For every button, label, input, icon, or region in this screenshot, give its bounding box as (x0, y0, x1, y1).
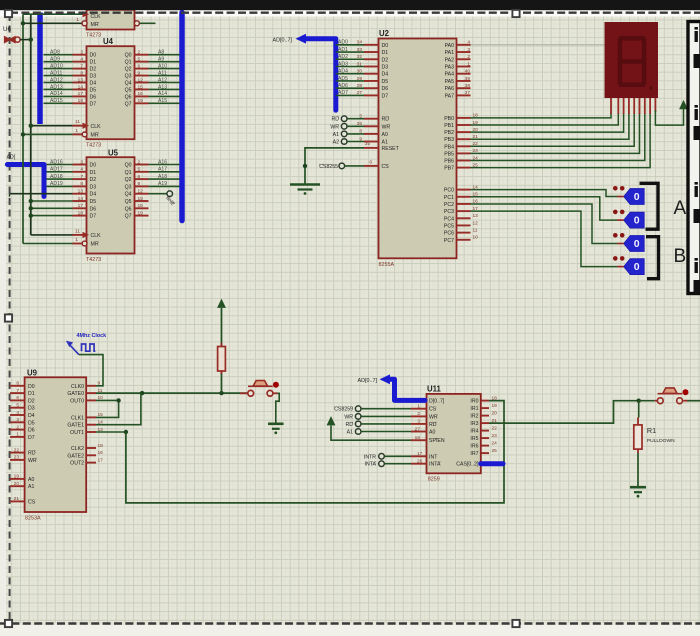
svg-text:RD: RD (382, 117, 390, 123)
svg-text:D7: D7 (90, 214, 97, 220)
svg-text:15: 15 (138, 84, 144, 90)
svg-text:RESET: RESET (382, 146, 400, 152)
svg-text:AD12: AD12 (50, 77, 63, 83)
svg-text:MR: MR (91, 133, 99, 139)
svg-text:8259: 8259 (428, 477, 440, 483)
svg-text:A16: A16 (158, 159, 167, 165)
svg-text:18: 18 (492, 395, 498, 401)
svg-text:PA6: PA6 (445, 86, 455, 92)
svg-text:4: 4 (467, 40, 470, 46)
svg-text:IR1: IR1 (470, 406, 478, 412)
svg-text:OUT2: OUT2 (70, 461, 84, 467)
svg-text:RD: RD (332, 117, 340, 123)
svg-text:WR: WR (382, 124, 391, 130)
svg-text:D1: D1 (382, 50, 389, 56)
svg-text:26: 26 (417, 459, 423, 465)
svg-text:D3: D3 (90, 74, 97, 80)
svg-text:A2: A2 (333, 140, 339, 146)
svg-text:1: 1 (75, 128, 78, 134)
svg-text:B: B (674, 246, 687, 267)
svg-text:PC5: PC5 (444, 223, 454, 229)
svg-text:18: 18 (98, 443, 104, 449)
svg-text:D2: D2 (90, 177, 97, 183)
svg-text:AD15: AD15 (50, 98, 63, 104)
svg-text:PA7: PA7 (445, 93, 455, 99)
svg-text:A0: A0 (382, 132, 388, 138)
svg-text:Q0: Q0 (125, 163, 132, 169)
svg-text:8255A: 8255A (379, 262, 395, 268)
svg-text:D4: D4 (90, 81, 97, 87)
svg-text:A15: A15 (158, 98, 167, 104)
svg-text:30: 30 (357, 69, 363, 75)
svg-text:MR: MR (91, 22, 99, 28)
svg-text:19: 19 (14, 474, 20, 480)
svg-text:D2: D2 (28, 398, 35, 404)
svg-text:A11: A11 (158, 70, 167, 76)
svg-text:PA1: PA1 (445, 50, 455, 56)
svg-text:U6: U6 (3, 26, 11, 33)
svg-text:9: 9 (138, 70, 141, 76)
svg-text:T4273: T4273 (86, 143, 101, 149)
svg-text:16: 16 (98, 450, 104, 456)
svg-text:A1: A1 (347, 430, 353, 436)
svg-text:PB3: PB3 (444, 137, 454, 143)
svg-text:WR: WR (344, 414, 353, 420)
svg-text:D1: D1 (90, 60, 97, 66)
svg-text:IR5: IR5 (470, 436, 478, 442)
svg-text:2: 2 (138, 50, 141, 56)
svg-text:16: 16 (138, 91, 144, 97)
svg-text:29: 29 (357, 76, 363, 82)
svg-text:36: 36 (357, 121, 363, 127)
svg-text:37: 37 (465, 90, 471, 96)
svg-text:Q7: Q7 (125, 214, 132, 220)
svg-text:CS: CS (382, 164, 390, 170)
svg-text:D3: D3 (28, 406, 35, 412)
svg-text:IR3: IR3 (470, 421, 478, 427)
svg-text:PA3: PA3 (445, 64, 455, 70)
svg-text:D0: D0 (90, 163, 97, 169)
svg-text:U9: U9 (27, 369, 38, 378)
svg-text:23: 23 (14, 455, 20, 461)
svg-text:PB6: PB6 (444, 159, 454, 165)
svg-text:CLK: CLK (91, 124, 102, 130)
svg-text:D6: D6 (90, 206, 97, 212)
svg-text:14: 14 (78, 84, 84, 90)
svg-text:A10: A10 (158, 63, 167, 69)
svg-text:5: 5 (16, 403, 19, 409)
svg-text:9: 9 (138, 181, 141, 187)
svg-text:15: 15 (138, 196, 144, 202)
svg-text:5: 5 (138, 56, 141, 62)
svg-text:3: 3 (16, 417, 19, 423)
svg-text:28: 28 (357, 83, 363, 89)
svg-text:A12: A12 (158, 77, 167, 83)
svg-text:0: 0 (634, 238, 640, 250)
svg-text:40: 40 (465, 69, 471, 75)
svg-text:Q5: Q5 (125, 199, 132, 205)
svg-text:Q2: Q2 (125, 177, 132, 183)
svg-text:WR: WR (28, 458, 37, 464)
svg-text:11: 11 (75, 228, 80, 234)
svg-text:D3: D3 (382, 64, 389, 70)
svg-text:WR: WR (429, 414, 438, 420)
svg-text:Q1: Q1 (125, 170, 132, 176)
svg-text:CLK0: CLK0 (71, 384, 84, 390)
svg-text:PB7: PB7 (444, 166, 454, 172)
svg-text:25: 25 (492, 448, 498, 454)
svg-text:22: 22 (14, 447, 20, 453)
svg-text:27: 27 (415, 426, 421, 432)
svg-text:D4: D4 (28, 413, 35, 419)
svg-text:2: 2 (16, 424, 19, 430)
svg-text:A: A (674, 198, 687, 219)
svg-text:AD10: AD10 (50, 63, 63, 69)
svg-text:34: 34 (357, 40, 363, 46)
svg-text:OUT1: OUT1 (70, 430, 84, 436)
svg-text:CS: CS (429, 407, 437, 413)
svg-text:6: 6 (369, 160, 372, 166)
svg-text:T4273: T4273 (86, 33, 101, 39)
svg-text:39: 39 (465, 76, 471, 82)
svg-text:CLK2: CLK2 (71, 446, 84, 452)
svg-text:6: 6 (16, 395, 19, 401)
svg-text:A14: A14 (158, 91, 167, 97)
svg-text:R1: R1 (647, 426, 656, 435)
svg-text:12: 12 (473, 220, 479, 226)
svg-text:A0: A0 (28, 477, 34, 483)
svg-text:CAS[0..2]: CAS[0..2] (456, 462, 479, 468)
svg-text:3: 3 (417, 419, 420, 425)
svg-text:D6: D6 (90, 94, 97, 100)
svg-text:MR: MR (91, 242, 99, 248)
svg-text:8: 8 (16, 381, 19, 387)
svg-text:U11: U11 (427, 385, 442, 394)
svg-text:13: 13 (78, 189, 84, 195)
svg-text:D5: D5 (382, 79, 389, 85)
svg-text:A0: A0 (429, 430, 435, 436)
svg-text:AD14: AD14 (50, 91, 63, 97)
svg-text:CS8255: CS8255 (319, 164, 338, 170)
svg-text:D3: D3 (90, 184, 97, 190)
svg-text:19: 19 (492, 403, 498, 409)
svg-text:PB5: PB5 (444, 151, 454, 157)
svg-text:PC7: PC7 (444, 238, 454, 244)
svg-text:D1: D1 (90, 170, 97, 176)
svg-text:PA2: PA2 (445, 57, 455, 63)
svg-text:D7: D7 (90, 101, 97, 107)
svg-text:6: 6 (138, 63, 141, 69)
svg-text:19: 19 (138, 210, 144, 216)
svg-text:5: 5 (138, 167, 141, 173)
svg-text:OUT0: OUT0 (70, 398, 84, 404)
svg-text:D5: D5 (90, 87, 97, 93)
svg-text:Q5: Q5 (125, 87, 132, 93)
svg-text:8: 8 (80, 181, 83, 187)
svg-text:31: 31 (357, 61, 363, 67)
svg-text:Q6: Q6 (125, 206, 132, 212)
svg-text:D6: D6 (382, 86, 389, 92)
svg-text:Q2: Q2 (125, 67, 132, 73)
svg-text:17: 17 (78, 203, 84, 209)
svg-text:RD: RD (429, 422, 437, 428)
svg-text:10: 10 (473, 235, 479, 241)
svg-text:Q7: Q7 (125, 101, 132, 107)
svg-text:IR6: IR6 (470, 444, 478, 450)
svg-text:AD2: AD2 (338, 54, 348, 60)
svg-text:IR4: IR4 (470, 429, 478, 435)
svg-text:19: 19 (138, 98, 144, 104)
svg-text:11: 11 (473, 227, 478, 233)
svg-text:U4: U4 (103, 37, 114, 46)
svg-text:16: 16 (415, 435, 421, 441)
svg-text:D0: D0 (90, 53, 97, 59)
svg-text:PB2: PB2 (444, 130, 454, 136)
svg-text:PC0: PC0 (444, 188, 454, 194)
svg-text:4: 4 (16, 410, 19, 416)
svg-text:D4: D4 (90, 192, 97, 198)
svg-text:IR0: IR0 (470, 399, 478, 405)
svg-text:1: 1 (76, 17, 79, 23)
svg-text:8: 8 (359, 129, 362, 135)
svg-text:Q1: Q1 (125, 60, 132, 66)
svg-text:AD13: AD13 (50, 84, 63, 90)
svg-text:PULLDOWN: PULLDOWN (647, 438, 675, 444)
svg-text:IR2: IR2 (470, 414, 478, 420)
svg-text:CS: CS (28, 499, 36, 505)
svg-text:U5: U5 (108, 149, 119, 158)
svg-text:D1: D1 (28, 391, 35, 397)
svg-text:21: 21 (14, 496, 20, 502)
svg-text:PB1: PB1 (444, 123, 454, 129)
svg-text:0: 0 (634, 215, 640, 227)
svg-text:7: 7 (80, 174, 83, 180)
svg-text:32: 32 (357, 54, 363, 60)
svg-text:A9: A9 (158, 56, 164, 62)
svg-text:D5: D5 (28, 420, 35, 426)
svg-text:D6: D6 (28, 428, 35, 434)
svg-text:D2: D2 (90, 67, 97, 73)
svg-text:AD1: AD1 (338, 47, 348, 53)
svg-text:Q3: Q3 (125, 184, 132, 190)
svg-text:8253A: 8253A (25, 516, 41, 522)
svg-text:SP/EN: SP/EN (429, 438, 445, 444)
svg-text:T4273: T4273 (86, 257, 101, 263)
svg-text:13: 13 (473, 213, 479, 219)
svg-text:PA0: PA0 (445, 43, 455, 49)
svg-text:3: 3 (80, 50, 83, 56)
svg-text:18: 18 (78, 98, 84, 104)
svg-text:Q4: Q4 (125, 192, 132, 198)
svg-text:17: 17 (417, 451, 423, 457)
svg-text:PB4: PB4 (444, 144, 454, 150)
svg-text:PC3: PC3 (444, 209, 454, 215)
svg-text:17: 17 (78, 91, 84, 97)
svg-text:1: 1 (16, 432, 19, 438)
svg-text:AD[0..7]: AD[0..7] (273, 38, 293, 44)
svg-text:12: 12 (138, 77, 144, 83)
svg-text:CLK: CLK (91, 14, 102, 20)
svg-text:22: 22 (492, 425, 498, 431)
svg-text:0: 0 (634, 191, 640, 203)
svg-text:AD16: AD16 (50, 159, 63, 165)
svg-text:23: 23 (492, 433, 498, 439)
svg-text:AD18: AD18 (50, 174, 63, 180)
svg-text:D[0..7]: D[0..7] (429, 398, 445, 404)
svg-text:AD19: AD19 (50, 181, 63, 187)
svg-text:2: 2 (417, 411, 420, 417)
svg-text:AD11: AD11 (50, 70, 63, 76)
svg-text:D0: D0 (28, 384, 35, 390)
svg-text:20: 20 (492, 410, 498, 416)
svg-text:PC6: PC6 (444, 231, 454, 237)
svg-text:16: 16 (138, 203, 144, 209)
svg-text:4: 4 (80, 56, 83, 62)
svg-text:Q6: Q6 (125, 94, 132, 100)
svg-text:GATE1: GATE1 (67, 423, 84, 429)
svg-text:AD4: AD4 (338, 69, 348, 75)
svg-text:AD5: AD5 (338, 76, 348, 82)
svg-text:CLK: CLK (91, 233, 102, 239)
svg-text:6: 6 (138, 174, 141, 180)
svg-text:D7: D7 (382, 93, 389, 99)
svg-text:8: 8 (80, 70, 83, 76)
svg-text:GATE0: GATE0 (67, 391, 84, 397)
svg-text:PC4: PC4 (444, 216, 454, 222)
svg-text:CLK1: CLK1 (71, 415, 84, 421)
svg-text:AD7: AD7 (338, 90, 348, 96)
svg-text:D2: D2 (382, 57, 389, 63)
svg-text:AD[: AD[ (7, 155, 16, 161)
svg-text:A1: A1 (333, 132, 339, 138)
svg-text:U2: U2 (379, 29, 390, 38)
svg-text:A8: A8 (158, 50, 164, 56)
svg-text:2: 2 (467, 54, 470, 60)
svg-text:D0: D0 (382, 43, 389, 49)
svg-text:A19: A19 (158, 181, 167, 187)
svg-text:0: 0 (634, 261, 640, 273)
svg-text:PA5: PA5 (445, 79, 455, 85)
svg-text:A1: A1 (382, 140, 388, 146)
svg-text:4Mhz Clock: 4Mhz Clock (77, 333, 107, 339)
svg-text:1: 1 (75, 237, 78, 243)
svg-text:9: 9 (359, 136, 362, 142)
svg-text:INTA: INTA (365, 462, 377, 468)
svg-text:D7: D7 (28, 435, 35, 441)
svg-text:A13: A13 (158, 84, 167, 90)
svg-text:A17: A17 (158, 167, 167, 173)
svg-text:AD0: AD0 (338, 40, 348, 46)
svg-text:3: 3 (467, 47, 470, 53)
svg-text:A1: A1 (28, 484, 34, 490)
svg-text:5: 5 (359, 114, 362, 120)
svg-text:INT: INT (429, 454, 438, 460)
svg-text:Q4: Q4 (125, 81, 132, 87)
svg-text:33: 33 (357, 47, 363, 53)
svg-text:INTA: INTA (429, 462, 441, 468)
svg-text:7: 7 (80, 63, 83, 69)
svg-text:27: 27 (357, 90, 363, 96)
svg-text:18: 18 (78, 210, 84, 216)
svg-text:1: 1 (467, 61, 470, 67)
svg-text:CS8259: CS8259 (334, 407, 353, 413)
svg-text:AD3: AD3 (338, 61, 348, 67)
svg-text:AD6: AD6 (338, 83, 348, 89)
svg-text:D4: D4 (382, 72, 389, 78)
svg-text:17: 17 (98, 457, 104, 463)
svg-text:1: 1 (417, 404, 420, 410)
svg-text:AD8: AD8 (50, 50, 60, 56)
svg-text:A18: A18 (158, 174, 167, 180)
svg-text:38: 38 (465, 83, 471, 89)
svg-text:20: 20 (14, 481, 20, 487)
svg-text:PA4: PA4 (445, 72, 455, 78)
svg-text:IR7: IR7 (470, 451, 478, 457)
svg-text:11: 11 (75, 119, 80, 125)
svg-text:RD: RD (28, 451, 36, 457)
svg-text:13: 13 (78, 77, 84, 83)
svg-text:PC2: PC2 (444, 202, 454, 208)
svg-text:PB0: PB0 (444, 116, 454, 122)
svg-text:2: 2 (138, 159, 141, 165)
svg-text:Q0: Q0 (125, 53, 132, 59)
svg-text:7: 7 (16, 388, 19, 394)
svg-text:INTR: INTR (364, 454, 376, 460)
svg-text:PC1: PC1 (444, 195, 454, 201)
svg-text:AD[0..7]: AD[0..7] (358, 378, 378, 384)
svg-text:RD: RD (346, 422, 354, 428)
svg-text:14: 14 (78, 196, 84, 202)
svg-text:4: 4 (80, 167, 83, 173)
svg-text:Q3: Q3 (125, 74, 132, 80)
svg-text:3: 3 (80, 159, 83, 165)
svg-text:12: 12 (138, 189, 144, 195)
svg-text:GATE2: GATE2 (67, 453, 84, 459)
svg-text:WR: WR (330, 124, 339, 130)
svg-text:D5: D5 (90, 199, 97, 205)
svg-text:AD17: AD17 (50, 167, 63, 173)
svg-text:AD9: AD9 (50, 56, 60, 62)
svg-text:24: 24 (492, 440, 498, 446)
svg-text:35: 35 (365, 141, 371, 147)
